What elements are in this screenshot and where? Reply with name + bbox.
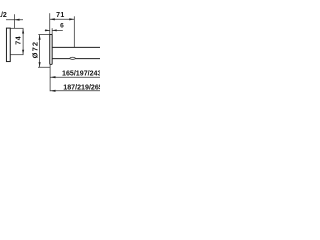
6 dimension line right tail <box>52 29 63 31</box>
background <box>0 0 100 100</box>
arrow leader left <box>15 19 20 21</box>
arrow 6 left <box>45 29 50 31</box>
74 top extension line <box>10 27 23 29</box>
svg-text:71: 71 <box>56 12 65 19</box>
svg-text:6: 6 <box>60 23 64 30</box>
dia72 top extension line <box>38 34 49 36</box>
extension line below leader <box>13 14 15 28</box>
dia72 bottom extension line <box>38 66 50 68</box>
bottom extension line <box>49 65 51 91</box>
dia72 dimension line <box>39 35 41 67</box>
svg-text:74: 74 <box>16 36 23 45</box>
aerator <box>70 57 75 59</box>
arrow dia72 down <box>39 62 41 67</box>
arrow 71 left <box>50 18 55 20</box>
71 dimension line <box>50 18 75 20</box>
71 right extension line <box>73 16 75 47</box>
svg-text:Ø72: Ø72 <box>31 41 40 58</box>
arrow dia72 up <box>39 35 41 40</box>
74 bottom extension line <box>10 54 23 56</box>
escutcheon plate <box>50 35 52 65</box>
74 dimension line <box>22 29 24 55</box>
svg-text:165/197/243: 165/197/243 <box>62 70 100 78</box>
svg-text:187/219/265: 187/219/265 <box>63 84 100 92</box>
arrow 165 left <box>50 76 55 78</box>
71 left extension line <box>49 13 51 34</box>
spout tube top <box>52 46 100 48</box>
arrow 71 right <box>69 18 74 20</box>
arrow 74 down <box>22 50 24 55</box>
spout tube bottom <box>52 58 100 60</box>
svg-text:G1/2: G1/2 <box>0 12 7 19</box>
6 right extension line <box>51 28 53 34</box>
arrow 6 right <box>52 29 57 31</box>
arrow 74 up <box>22 29 24 34</box>
dimension line 187/219/265 <box>50 90 100 92</box>
wall union body <box>6 28 10 61</box>
arrow 187 left <box>50 90 55 92</box>
dimension line 165/197/243 <box>50 76 100 78</box>
leader line G1/2 <box>6 19 23 21</box>
6 dimension line left tail <box>45 29 50 31</box>
